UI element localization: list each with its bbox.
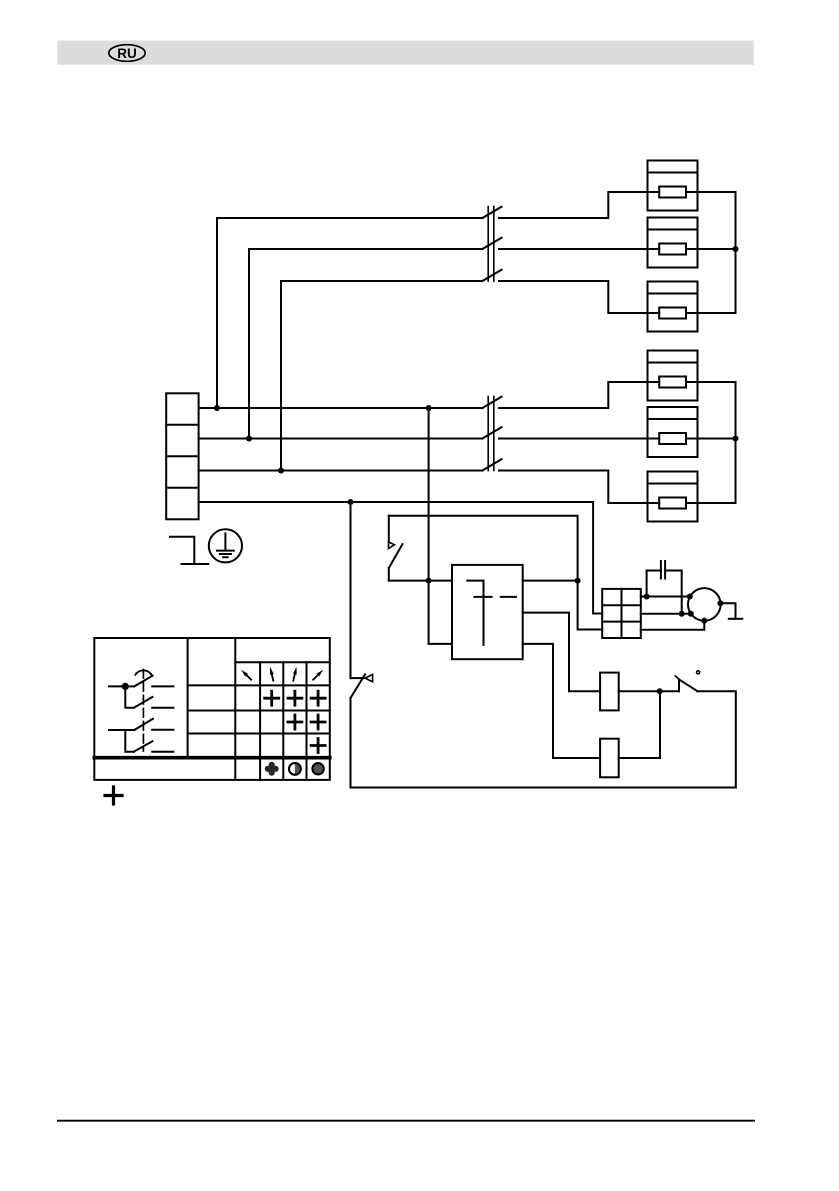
plus mark r2c4 — [311, 715, 325, 729]
wire igniter pin feed — [429, 643, 452, 645]
wire riser 2 — [249, 249, 482, 439]
wire K2 out — [619, 691, 660, 758]
wire E4 right — [698, 381, 736, 383]
connector block XP — [602, 589, 641, 638]
heating element E3 — [648, 282, 698, 332]
heating element E1 — [648, 161, 698, 211]
node capacitor tap — [644, 594, 650, 600]
wire E1 right — [698, 191, 736, 193]
wire S1 pole1 to E1 — [499, 192, 648, 218]
wire S2 pole1 to E4 — [499, 382, 648, 408]
wire block row2 to motor — [641, 613, 691, 615]
protective earth symbol — [209, 529, 242, 562]
bus top group — [735, 192, 737, 313]
wire S2 pole2 to E5 — [499, 438, 648, 440]
node motor terminal c — [717, 600, 723, 606]
switch S1 pole 3 — [482, 270, 501, 281]
wire motor to chassis — [720, 603, 735, 619]
wire L1 drop to igniter — [428, 408, 430, 644]
footer rule — [57, 1120, 755, 1122]
wire A1 pin3 to relay K2 — [523, 644, 600, 758]
wire block row1 to motor — [641, 596, 690, 598]
plus mark r1c2 — [265, 691, 279, 705]
wire S5 to loop — [697, 691, 736, 787]
wire S1 pole3 to E3 — [499, 281, 648, 313]
node L1-igniter drop — [426, 405, 432, 411]
node bus bottom — [733, 436, 739, 442]
junction dots — [214, 246, 739, 694]
wire E3 right — [698, 312, 736, 314]
relay K2 — [600, 739, 619, 778]
wire L2 — [199, 438, 483, 440]
switch S1 pole 1 — [482, 207, 501, 218]
wire S2 pole3 to E6 — [499, 471, 648, 504]
RU language badge — [109, 45, 145, 62]
plus mark r1c4 — [311, 691, 325, 705]
knob position arrow 1 — [240, 668, 253, 681]
chassis ground — [729, 618, 743, 620]
switch S2 pole 3 — [482, 459, 501, 470]
plus mark r2c3 — [288, 715, 302, 729]
wire N — [199, 502, 603, 614]
header bar — [57, 41, 754, 65]
node L1-riser1 — [214, 405, 220, 411]
push-button S4 — [351, 674, 373, 787]
switch S1 linkage — [488, 207, 494, 282]
wire block row3 to motor — [641, 621, 705, 630]
switch S2 linkage — [488, 397, 494, 471]
switch S2 pole 2 — [482, 427, 501, 438]
wire E6 right — [698, 502, 736, 504]
thermostat contact S3 — [389, 516, 453, 581]
switch S2 pole 1 — [482, 397, 501, 408]
switch S5 — [675, 671, 699, 692]
heating element E6 — [648, 472, 698, 522]
node capacitor-motor — [679, 611, 685, 617]
wire riser 1 — [217, 218, 482, 408]
heating element E2 — [648, 218, 698, 268]
wire bottom return — [351, 787, 736, 789]
node motor terminal b — [688, 611, 694, 617]
node L3-riser3 — [278, 468, 284, 474]
wire L1 — [199, 407, 483, 409]
knob position arrow 2 — [268, 666, 275, 681]
half-filled circle icon — [289, 763, 301, 775]
knob position arrow 3 — [291, 666, 298, 681]
bus bottom group — [735, 382, 737, 503]
legend table — [94, 638, 329, 780]
relay K1 — [600, 673, 619, 711]
switch S1 pole 2 — [482, 238, 501, 249]
svg-text:RU: RU — [117, 46, 137, 61]
heating element E5 — [648, 407, 698, 457]
wire A1 pin2 to relay K1 — [523, 613, 600, 692]
chassis bracket — [170, 537, 208, 564]
filled circle icon — [312, 763, 323, 774]
node K1-K2 junction — [657, 688, 663, 694]
wire E2 right — [698, 248, 736, 250]
heating element E4 — [648, 351, 698, 401]
wire A1 pin1 — [523, 580, 578, 582]
terminal block X1 — [166, 393, 198, 519]
capacitor C1 — [647, 561, 682, 614]
motor M1 — [688, 588, 721, 621]
knob position arrow 4 — [312, 668, 325, 681]
wire S1 pole2 to E2 — [499, 248, 648, 250]
clover icon — [265, 762, 279, 776]
wire riser 3 — [281, 281, 482, 471]
wire N drop — [350, 502, 352, 678]
node thermostat-A1 — [426, 578, 432, 584]
plus mark standalone — [105, 787, 122, 804]
node motor terminal d — [701, 618, 707, 624]
rotary switch symbol — [109, 670, 173, 752]
ignition module A1 — [452, 565, 523, 659]
wire thermostat branch — [389, 516, 602, 630]
wire K1 out — [619, 690, 679, 692]
node L2-riser2 — [246, 436, 252, 442]
plus mark r1c3 — [288, 691, 302, 705]
node N drop — [348, 499, 354, 505]
node bus top — [733, 246, 739, 252]
node motor terminal a — [687, 594, 693, 600]
wire E5 right — [698, 438, 736, 440]
plus mark r3c4 — [311, 739, 325, 753]
node A1 pin1 branch — [575, 578, 581, 584]
wire L3 — [199, 470, 483, 472]
